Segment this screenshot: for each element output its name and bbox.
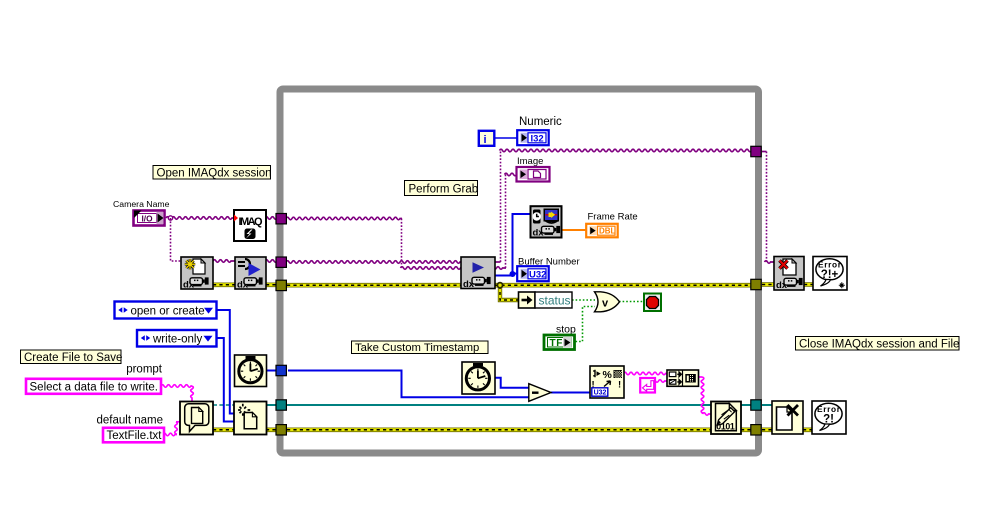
- svg-text:Image: Image: [517, 156, 543, 167]
- svg-text:write-only: write-only: [152, 333, 202, 345]
- svg-text:IMAQ: IMAQ: [239, 216, 263, 228]
- while loop: [280, 89, 759, 453]
- svg-text:I32: I32: [531, 133, 544, 144]
- tunnel: error out of loop bottom (olive): [751, 425, 761, 435]
- svg-text:Open IMAQdx session: Open IMAQdx session: [157, 167, 272, 179]
- node IMAQdx property node (Frame Rate): [531, 206, 562, 238]
- svg-text:?!+: ?!+: [821, 269, 839, 281]
- wire file-dialog path to open/create (teal dashed): [213, 404, 234, 406]
- tunnel: file refnum out of loop (teal): [751, 400, 761, 410]
- svg-text:I/O: I/O: [142, 213, 154, 223]
- svg-text:%: %: [603, 369, 613, 381]
- svg-text:status: status: [539, 294, 571, 308]
- indicator Numeric I32: [517, 130, 549, 145]
- svg-text:0101: 0101: [716, 422, 735, 432]
- wire Configure Grab to left tunnel (purple): [265, 260, 282, 263]
- node IMAQdx Configure Grab: [235, 257, 266, 291]
- control Camera Name I/O: [134, 211, 165, 226]
- wire file refnum teal: open/create to tunnel, across loop, to close file: [266, 404, 772, 406]
- node IMAQ Create: [234, 210, 266, 241]
- wire IMAQ Create to left tunnel (purple image): [265, 217, 282, 220]
- node unbundle by name (status): [519, 292, 536, 308]
- function Or gate: [595, 292, 620, 312]
- wire image tunnel across loop down to Grab image-in: [286, 217, 402, 220]
- status element name box: [535, 292, 572, 308]
- tunnel: error into loop top (olive): [276, 280, 286, 290]
- wire stop TF up to Or gate (green dotted): [576, 307, 596, 342]
- wire Or gate to stop button (green dotted): [619, 301, 644, 303]
- free label: Take Custom Timestamp: [352, 341, 489, 354]
- wire error right of loop: tunnel to IMAQdx Close to Error+: [762, 282, 813, 287]
- wire Open Camera to Configure Grab (purple): [213, 260, 235, 263]
- constant End of Line (return): [640, 378, 655, 393]
- svg-text:Camera Name: Camera Name: [113, 199, 170, 209]
- svg-text:Error: Error: [817, 404, 841, 414]
- svg-text:Frame Rate: Frame Rate: [588, 212, 638, 223]
- tunnel: error out of loop top (olive): [751, 279, 761, 289]
- node Open/Create/Replace File: [234, 402, 267, 435]
- wire write-only enum down to Open/Create File (blue): [217, 338, 235, 422]
- svg-text:Select a data file to write.: Select a data file to write.: [30, 382, 158, 394]
- junction dot on buffer wire: [510, 271, 516, 277]
- wire camera-name to IMAQ Create (purple session): [166, 217, 234, 220]
- wire Grab session-out up and across to right tunnel: [495, 261, 501, 263]
- svg-text:TextFile.txt: TextFile.txt: [107, 430, 163, 442]
- node Write to Text File: [711, 402, 741, 435]
- node Close File: [772, 401, 803, 434]
- node Tick Count clock (inside loop): [462, 362, 495, 394]
- tunnel: session out of loop (purple): [751, 146, 761, 156]
- function Subtract: [529, 384, 551, 402]
- wire camera-name branch down to Open Camera: [171, 218, 182, 261]
- node Simple Error Handler (bottom): [812, 401, 846, 434]
- control stop TF: [544, 335, 575, 350]
- stop button (loop condition terminal): [644, 294, 661, 312]
- node IMAQdx Open Camera: [181, 257, 213, 291]
- constant prompt string: [26, 379, 161, 394]
- svg-text:i: i: [484, 134, 487, 146]
- wire blue tunnel across to subtract bottom input: [288, 371, 529, 398]
- constant default name string: [103, 428, 164, 443]
- svg-text:Numeric: Numeric: [519, 116, 562, 128]
- wire status to Or gate (green dotted): [572, 299, 595, 301]
- node File Dialog: [180, 402, 213, 435]
- svg-text:!: !: [618, 380, 621, 391]
- node junction on camera name wire: [168, 216, 172, 220]
- indicator Image: [517, 167, 550, 182]
- control enum write-only: [137, 330, 217, 347]
- wire error branch down to unbundle status: [500, 286, 519, 300]
- svg-text:Take Custom Timestamp: Take Custom Timestamp: [355, 342, 479, 354]
- wire EOL constant to build array (pink): [653, 380, 668, 383]
- node Tick Count clock (outside loop): [235, 355, 267, 387]
- wire error inside loop top: tunnel to Grab to right tunnel: [287, 283, 751, 288]
- wire error bottom row: file dialog chain: [213, 427, 812, 432]
- svg-text:?!: ?!: [823, 414, 834, 426]
- wire subtract output to format-into-string: [551, 392, 590, 394]
- free label: Create File to Save: [21, 350, 123, 364]
- junction on error wire: [497, 282, 504, 289]
- wire prompt string to file dialog (pink): [161, 385, 192, 388]
- wire default name string to file dialog (pink): [163, 433, 177, 436]
- wire i terminal to Numeric I32 (blue): [495, 137, 517, 139]
- svg-text:DBL: DBL: [599, 227, 616, 236]
- node Simple Error Handler (top): [813, 257, 847, 291]
- free label: Perform Grab: [405, 181, 479, 196]
- coercion dot on IMAQ Create input: [234, 215, 238, 222]
- node Format Into String: [590, 366, 624, 398]
- svg-text:TF: TF: [550, 338, 563, 349]
- svg-text:U32: U32: [529, 269, 546, 280]
- free label: Close IMAQdx session and File: [796, 337, 960, 351]
- svg-text:Perform Grab: Perform Grab: [409, 183, 479, 195]
- wire clock inside to subtract top input: [495, 378, 529, 388]
- svg-text:Close IMAQdx session and File: Close IMAQdx session and File: [799, 338, 959, 350]
- indicator Buffer Number U32: [517, 266, 549, 281]
- svg-text:open or create: open or create: [131, 305, 205, 317]
- svg-text:prompt: prompt: [126, 364, 163, 376]
- tunnel: file refnum into loop (teal): [276, 400, 286, 410]
- tunnel: session into loop (purple): [276, 257, 286, 267]
- node IMAQdx Grab: [461, 257, 495, 290]
- wire Grab image-out up to Image indicator: [505, 175, 507, 269]
- svg-text:Error: Error: [818, 259, 842, 269]
- wire open-or-create enum down to Open/Create File (blue): [217, 310, 235, 414]
- svg-text:v: v: [602, 298, 609, 310]
- wire Grab buffer-out to U32 and up to property node (blue): [495, 274, 517, 276]
- svg-text:U32: U32: [594, 390, 607, 397]
- function Build Array: [667, 370, 699, 386]
- svg-text:Create File to Save: Create File to Save: [24, 352, 122, 364]
- tunnel: tick count into loop (blue): [276, 365, 286, 375]
- wire error: Open Camera to Configure Grab: [213, 282, 282, 287]
- tunnel: error into loop bottom (olive): [276, 425, 286, 435]
- indicator Frame Rate DBL: [586, 224, 618, 238]
- wire right tunnel down to IMAQdx Close: [762, 151, 767, 153]
- node IMAQdx Close Camera: [774, 257, 804, 292]
- svg-text:default name: default name: [97, 415, 164, 427]
- WIRES-LAYER: [161, 138, 813, 436]
- control enum open or create: [115, 302, 217, 319]
- wire format-into-string to build array (pink): [624, 372, 668, 375]
- wire clock outside to blue tunnel: [267, 370, 283, 372]
- wire build array to write-text-file (pink): [699, 376, 703, 378]
- wire property node Frame Rate to DBL (orange): [562, 229, 586, 231]
- tunnel: image into loop (purple): [276, 214, 286, 224]
- iteration terminal i: [479, 131, 495, 146]
- wire session tunnel to Grab session-in: [286, 261, 462, 264]
- free label: Open IMAQdx session: [153, 166, 272, 180]
